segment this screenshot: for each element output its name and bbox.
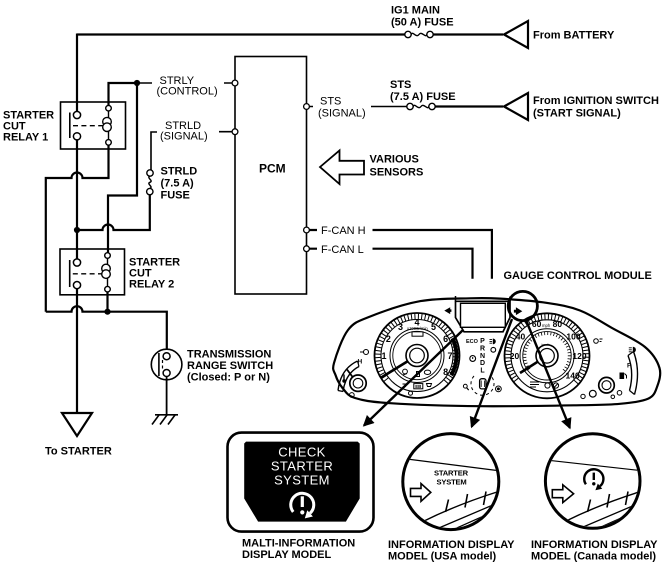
svg-text:(7.5 A) FUSE: (7.5 A) FUSE [390,91,456,103]
thermometer icon [343,375,345,381]
TPMS indicator [470,356,476,362]
fuel pump icon [620,373,625,380]
tachometer hub [406,345,428,367]
ground [152,415,178,425]
svg-text:F-CAN L: F-CAN L [321,244,364,256]
wire bottom rail to transmission range switch [46,306,167,349]
speedometer bezel [505,313,590,398]
svg-text:20: 20 [510,351,520,361]
USA display gauge ticks [446,492,487,513]
node STRLY junction [134,80,140,86]
seatbelt small icon right [594,339,599,344]
svg-text:mph: mph [542,323,551,328]
svg-text:RANGE SWITCH: RANGE SWITCH [187,360,273,372]
small indicator left of tach [364,350,369,355]
tachometer ticks [375,314,459,384]
pin PCM F-CAN H [304,227,310,233]
USA display chord line [403,459,497,471]
temp knob [350,375,366,391]
svg-text:EB: EB [415,384,421,389]
svg-text:(START SIGNAL): (START SIGNAL) [533,108,621,120]
wire STRLY node down to relay2 coil [108,83,137,253]
connector arrow From BATTERY [504,21,528,48]
svg-text:(SIGNAL): (SIGNAL) [318,108,366,120]
cluster screw bottom left [409,391,413,395]
wire relay1 coil bottom to left rail [46,145,109,312]
fuse STRLD (7.5 A) [147,170,154,195]
Canada display gauge arcs [564,492,639,522]
svg-text:STS: STS [390,79,411,91]
wire TR switch to ground [166,377,168,415]
cluster screws bottom right [581,394,585,398]
svg-text:GAUGE CONTROL MODULE: GAUGE CONTROL MODULE [504,270,652,282]
high beam indicator [633,347,636,353]
Canada model display circle [545,434,640,529]
svg-text:60: 60 [532,319,542,329]
junction STRLD tap [74,227,80,233]
svg-text:D: D [480,360,485,367]
speedometer hub [536,345,558,367]
wire STS pin to fuse [310,106,407,108]
wire STS fuse to ignition arrow [436,105,504,107]
fuse STS (7.5 A) [407,103,435,109]
svg-text:From BATTERY: From BATTERY [533,30,615,42]
temp gauge arc [338,361,358,391]
pin PCM F-CAN L [304,246,310,252]
svg-text:RELAY 1: RELAY 1 [3,132,48,144]
wire relay2 switch bottom to starter [76,289,78,413]
svg-text:(SIGNAL): (SIGNAL) [160,131,208,143]
svg-text:(CONTROL): (CONTROL) [157,86,218,98]
wire F-CAN L to gauge module [310,249,473,279]
fuel gauge arc [634,352,638,395]
svg-text:FUSE: FUSE [161,189,190,201]
brake warning icon in multi-info display [291,493,314,513]
svg-text:80: 80 [553,319,563,329]
speedometer needle [520,356,547,373]
USA model display circle [403,434,499,530]
svg-text:SENSORS: SENSORS [370,167,424,179]
svg-text:RELAY 2: RELAY 2 [129,279,174,291]
svg-text:STRLD: STRLD [161,165,198,177]
key indicator [463,384,467,388]
svg-text:INFORMATION DISPLAY: INFORMATION DISPLAY [531,539,658,551]
svg-text:L: L [480,368,485,375]
svg-text:MODEL (USA model): MODEL (USA model) [388,551,497,563]
svg-text:PCM: PCM [259,162,286,176]
svg-text:VARIOUS: VARIOUS [370,154,419,166]
tachometer odometer window [412,332,423,336]
tachometer tick ring inner edge [381,320,453,392]
small lamp indicator [491,347,496,352]
door open car icon [480,379,486,389]
PCM box [235,57,307,295]
right turn signal arrow (in circle) [514,307,522,315]
speedometer inner rings [520,329,574,383]
svg-text:CHECK: CHECK [278,445,326,460]
svg-text:(50 A) FUSE: (50 A) FUSE [391,17,454,29]
pin PCM STRLD [232,129,238,135]
text STARTER SYSTEM in USA display [434,469,469,487]
magnifier circle on indicator [508,291,537,320]
svg-text:2: 2 [386,334,391,344]
fuse IG1 MAIN (50 A) [405,31,433,37]
wire relay1 coil top up to STRLY node [109,83,138,105]
svg-text:MODEL (Canada model): MODEL (Canada model) [531,551,656,563]
svg-text:7: 7 [447,351,452,361]
speedometer ticks [505,314,589,384]
Canada display gauge ticks [588,492,629,513]
connector arrow From IGNITION SWITCH [504,93,528,120]
tachometer redline band [450,337,459,376]
PRNDL indicator [480,338,485,375]
speedometer km/h scale [523,332,571,371]
svg-text:To STARTER: To STARTER [45,446,112,458]
headlight indicator [493,339,496,345]
svg-text:SYSTEM: SYSTEM [437,477,467,486]
svg-text:8: 8 [443,367,448,377]
svg-text:140: 140 [566,371,580,381]
svg-text:3: 3 [398,322,403,332]
wire F-CAN H to gauge module [310,230,492,279]
connector arrow To STARTER [62,413,92,436]
text CHECK STARTER SYSTEM [271,445,333,488]
brake warning icon in Canada display [584,469,603,486]
transmission range switch [151,349,182,380]
Canada display chord line [546,460,640,471]
svg-text:6: 6 [443,334,448,344]
LCD display inner [461,303,506,327]
USA display gauge arcs [422,492,497,522]
tachometer inner rings [390,329,444,383]
svg-text:120: 120 [572,351,586,361]
white arrow in USA display [411,484,431,502]
wire relay1 switch bottom to relay2 switch top [76,140,78,259]
relay 2 STARTER CUT RELAY 2 [60,249,125,295]
callout arrow to Canada display [526,320,570,428]
fuel knob [599,377,615,393]
callout arrow to multi-info display [364,330,463,426]
wire battery rail top [77,33,405,35]
multi-information display bezel [228,433,374,532]
white arrow in Canada display [552,485,573,503]
junction relay2 coil ground [104,309,110,315]
tachometer needle [381,356,418,379]
dashed ring around car icon [471,376,494,395]
svg-text:IG1 MAIN: IG1 MAIN [391,5,440,17]
svg-text:1: 1 [381,351,386,361]
svg-text:F-CAN H: F-CAN H [321,225,366,237]
svg-text:MALTI-INFORMATION: MALTI-INFORMATION [242,538,355,550]
left turn signal arrow [444,307,451,314]
wire STRLD pin to fuse [151,132,233,170]
wire relay2 coil bottom to rail [106,292,108,312]
callout arrow to USA display [472,319,512,427]
speedometer numbers [510,319,587,380]
svg-text:DISPLAY MODEL: DISPLAY MODEL [242,549,332,561]
speedometer bottom icons [530,382,559,388]
cluster outline [333,298,660,406]
relay 1 STARTER CUT RELAY 1 [61,102,126,149]
pin PCM STS [304,104,310,110]
svg-text:INFORMATION DISPLAY: INFORMATION DISPLAY [388,539,515,551]
svg-text:N: N [480,353,485,360]
arrow VARIOUS SENSORS into PCM [320,151,364,185]
bezel columns [456,296,511,301]
svg-text:(Closed: P or N): (Closed: P or N) [187,372,270,384]
svg-text:40: 40 [516,331,526,341]
svg-text:STARTER: STARTER [271,459,333,474]
tachometer numbers [381,318,452,378]
svg-text:TRANSMISSION: TRANSMISSION [187,349,271,361]
LCD display bezel [456,301,511,332]
pin PCM STRLY [232,80,238,86]
svg-text:H: H [358,359,363,366]
wire fuse to battery arrow [434,33,504,35]
svg-text:(7.5 A): (7.5 A) [161,178,195,190]
svg-text:5: 5 [431,322,436,332]
svg-text:ECO: ECO [466,339,479,345]
svg-text:SYSTEM: SYSTEM [274,473,330,488]
svg-text:P: P [480,338,485,345]
svg-text:STS: STS [320,96,341,108]
svg-text:F: F [627,363,631,370]
brake indicator small [496,386,502,392]
tachometer bottom icons [403,369,432,389]
multi-information display screen [244,442,360,522]
wire STRLD fuse down to relay switch chain [77,195,150,230]
speedometer tick ring inner edge [511,320,583,392]
svg-text:From IGNITION SWITCH: From IGNITION SWITCH [533,95,659,107]
wire rail corner down to relay 1 switch [76,34,78,112]
svg-text:R: R [480,345,485,352]
gauge control module cluster [333,296,660,406]
tachometer bezel [375,313,460,398]
wire STRLY node to PCM pin [137,82,233,84]
